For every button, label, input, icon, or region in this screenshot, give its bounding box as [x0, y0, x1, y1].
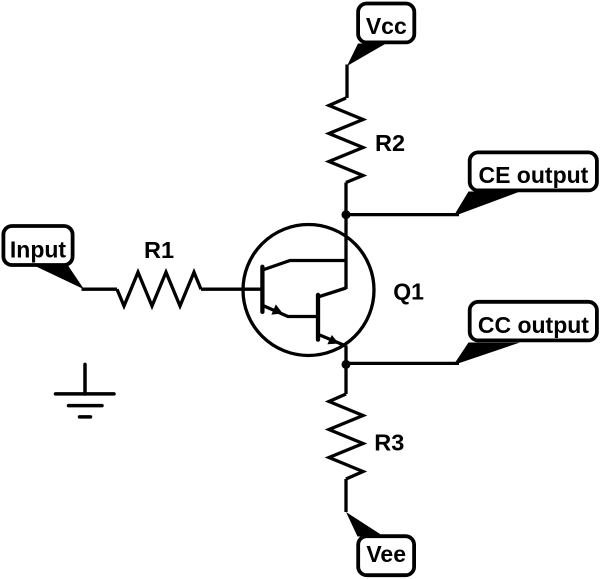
transistor Q1 second-stage emitter arrow	[327, 335, 338, 344]
svg-text:CC output: CC output	[478, 312, 589, 338]
svg-text:CE output: CE output	[478, 162, 588, 188]
transistor Q1 first-stage emitter arrow	[271, 304, 282, 314]
flag CC output	[454, 302, 597, 365]
wire R2 bottom to collector node	[344, 183, 347, 215]
power flag Vee	[346, 512, 414, 575]
svg-text:R2: R2	[375, 130, 405, 156]
svg-text:Q1: Q1	[393, 279, 424, 305]
svg-text:Vee: Vee	[366, 541, 406, 567]
flag CE output	[454, 152, 597, 216]
transistor Q1 second-stage emitter lead	[320, 335, 346, 346]
junction dot collector node	[342, 210, 351, 219]
wire collector node to CE output flag	[346, 213, 459, 216]
power flag Vcc	[347, 4, 414, 67]
junction dot emitter node	[342, 360, 351, 369]
resistor R1	[117, 272, 201, 306]
flag Input	[3, 226, 84, 289]
resistor R3	[329, 394, 363, 479]
wire R1 to Q1 base	[201, 288, 262, 291]
ground symbol	[56, 364, 115, 417]
wire Input flag to R1	[82, 288, 118, 291]
svg-text:Vcc: Vcc	[366, 13, 407, 39]
transistor Q1 second-stage collector lead	[320, 288, 346, 296]
transistor Q1 first-stage emitter lead	[264, 306, 316, 317]
wire emitter node to R3 top	[344, 364, 347, 394]
svg-text:R1: R1	[144, 237, 174, 263]
wire Q1 emitter to emitter node	[344, 346, 347, 365]
svg-text:Input: Input	[10, 237, 67, 263]
resistor R2	[329, 98, 363, 183]
wire emitter node to CC output flag	[346, 362, 459, 365]
wire R3 bottom to Vee flag	[344, 479, 347, 512]
transistor Q1 first-stage collector lead	[264, 261, 346, 270]
wire Vcc flag to R2 top	[345, 65, 348, 99]
transistor Q1 first-stage base bar	[260, 267, 264, 312]
transistor Q1 Darlington envelope circle	[243, 225, 374, 356]
svg-text:R3: R3	[374, 429, 404, 455]
wire collector node into Q1	[344, 215, 347, 289]
transistor Q1 second-stage base bar	[316, 295, 320, 340]
